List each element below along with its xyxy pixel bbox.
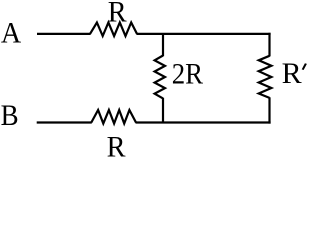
svg-text:R: R [107, 130, 126, 161]
svg-text:R: R [282, 57, 302, 90]
wire top-left from node A to resistor R [37, 33, 91, 35]
resistor R2 (vertical, label 2R) [155, 56, 165, 99]
resistor R4 (bottom, label R) [91, 110, 136, 124]
prime mark of R' [302, 63, 307, 70]
resistor R3 (vertical, label R') [259, 56, 272, 98]
wire right branch top lead [268, 33, 270, 57]
svg-text:R: R [108, 0, 127, 29]
wire 2R top lead (junction on top wire) [162, 34, 164, 56]
wire bottom from resistor R to bottom-right corner [136, 121, 271, 123]
wire right branch bottom lead [268, 97, 270, 123]
svg-text:B: B [1, 99, 19, 132]
wire bottom-left from node B to resistor R [37, 121, 92, 123]
resistor R1 (top, label R) [90, 23, 137, 37]
wire 2R bottom lead to bottom wire junction [162, 98, 164, 123]
svg-text:A: A [1, 17, 22, 50]
wire top from resistor R to top-right corner [137, 33, 271, 35]
svg-text:2R: 2R [172, 58, 203, 91]
